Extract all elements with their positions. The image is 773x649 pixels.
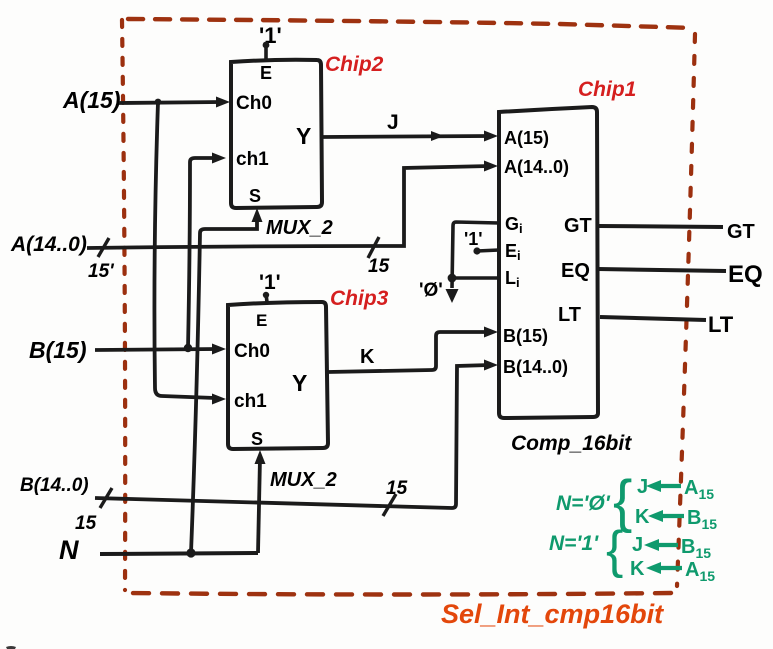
wire B(15) up to chip2 ch1 bbox=[188, 158, 217, 348]
ground arrow down bbox=[446, 289, 459, 303]
svg-text:{: { bbox=[606, 521, 623, 579]
svg-text:Y: Y bbox=[296, 123, 311, 149]
svg-text:Sel_Int_cmp16bit: Sel_Int_cmp16bit bbox=[441, 599, 664, 629]
svg-text:ch1: ch1 bbox=[236, 149, 269, 170]
svg-text:K: K bbox=[630, 558, 645, 580]
wire J from chip2 Y to chip1 A(15) bbox=[322, 136, 490, 137]
svg-text:Chip3: Chip3 bbox=[330, 287, 389, 310]
svg-text:K: K bbox=[635, 506, 650, 528]
svg-text:S: S bbox=[251, 429, 263, 449]
svg-text:15: 15 bbox=[368, 256, 390, 277]
junction on B(15) wire bbox=[184, 344, 192, 352]
svg-text:B(15): B(15) bbox=[503, 326, 548, 346]
svg-text:B(14..0): B(14..0) bbox=[503, 357, 568, 377]
svg-text:N='1': N='1' bbox=[549, 532, 599, 555]
svg-text:Chip1: Chip1 bbox=[578, 78, 636, 101]
svg-text:MUX_2: MUX_2 bbox=[270, 469, 337, 491]
dashed border left bbox=[122, 20, 125, 590]
svg-text:B(15): B(15) bbox=[29, 337, 87, 363]
wire K from chip3 Y to chip1 B(15) bbox=[328, 332, 490, 372]
mux U-chip3 box bbox=[228, 302, 328, 449]
dashed border right bbox=[677, 34, 695, 586]
wire N up to chip2 S bbox=[191, 216, 257, 553]
svg-text:J: J bbox=[637, 476, 648, 498]
wire Li branch bbox=[452, 276, 499, 280]
svg-text:A(15): A(15) bbox=[504, 128, 549, 148]
junction on A(15) wire bbox=[155, 99, 162, 106]
svg-text:Ch0: Ch0 bbox=[234, 341, 270, 362]
svg-text:'1': '1' bbox=[259, 23, 282, 48]
svg-text:S: S bbox=[249, 186, 261, 206]
wire A(14..0) to chip1 bbox=[87, 166, 490, 248]
dashed border top bbox=[128, 19, 694, 28]
svg-text:N='Ø': N='Ø' bbox=[556, 492, 611, 515]
dashed border bottom bbox=[129, 593, 671, 595]
svg-text:15: 15 bbox=[386, 478, 408, 499]
wire N horizontal bbox=[100, 553, 258, 554]
wire N up to chip3 S bbox=[258, 458, 260, 553]
svg-text:EQ: EQ bbox=[561, 260, 590, 282]
svg-text:'1': '1' bbox=[259, 271, 281, 294]
svg-text:'1': '1' bbox=[464, 229, 483, 249]
green note N='0' case bbox=[556, 469, 717, 534]
svg-text:Comp_16bit: Comp_16bit bbox=[511, 432, 632, 455]
bus slash on B(14..0) bbox=[100, 488, 112, 508]
bus slash on B(14..0) mid bbox=[383, 494, 396, 516]
svg-text:K: K bbox=[360, 346, 375, 368]
svg-text:Y: Y bbox=[292, 370, 307, 396]
wire A(15) to chip2 Ch0 bbox=[119, 102, 222, 103]
svg-text:LT: LT bbox=[558, 304, 581, 326]
wire EQ output bbox=[598, 269, 726, 271]
bus slash on A(14..0) bbox=[98, 238, 109, 257]
svg-text:GT: GT bbox=[727, 221, 755, 243]
wire GT output bbox=[598, 226, 723, 227]
wire A(15) down to chip3 ch1 bbox=[154, 102, 215, 398]
svg-text:N: N bbox=[59, 535, 79, 565]
junction on Gi-Li vertical bbox=[448, 274, 457, 283]
mux U-chip2 box bbox=[231, 60, 322, 208]
svg-text:LT: LT bbox=[708, 312, 734, 337]
svg-text:'Ø': 'Ø' bbox=[419, 280, 443, 301]
svg-text:15: 15 bbox=[75, 513, 97, 534]
wire B(15) to chip3 Ch0 bbox=[95, 349, 218, 350]
svg-text:ch1: ch1 bbox=[234, 391, 267, 412]
svg-text:GT: GT bbox=[564, 215, 592, 237]
comparator U-chip1 box bbox=[499, 107, 598, 418]
svg-text:B(14..0): B(14..0) bbox=[20, 475, 89, 496]
svg-text:E: E bbox=[260, 63, 272, 83]
svg-text:15': 15' bbox=[88, 261, 115, 282]
wire B(14..0) to chip1 bbox=[95, 365, 490, 508]
svg-text:MUX_2: MUX_2 bbox=[266, 217, 333, 239]
svg-text:E: E bbox=[256, 311, 267, 330]
bus slash on A(14..0) mid bbox=[368, 237, 379, 258]
wire Gi branch bbox=[452, 222, 499, 288]
svg-text:A(14..0): A(14..0) bbox=[10, 233, 87, 256]
junction on N wire bbox=[186, 548, 195, 557]
svg-text:Chip2: Chip2 bbox=[325, 53, 384, 76]
green note N='1' case bbox=[549, 521, 715, 584]
svg-text:EQ: EQ bbox=[728, 261, 763, 288]
svg-text:J: J bbox=[632, 534, 643, 556]
svg-text:A(15): A(15) bbox=[62, 87, 121, 113]
corner ink smudge bbox=[6, 646, 16, 649]
wire LT output bbox=[600, 317, 706, 320]
svg-text:J: J bbox=[387, 111, 399, 134]
svg-text:Ch0: Ch0 bbox=[236, 93, 272, 114]
svg-text:A(14..0): A(14..0) bbox=[504, 157, 569, 177]
